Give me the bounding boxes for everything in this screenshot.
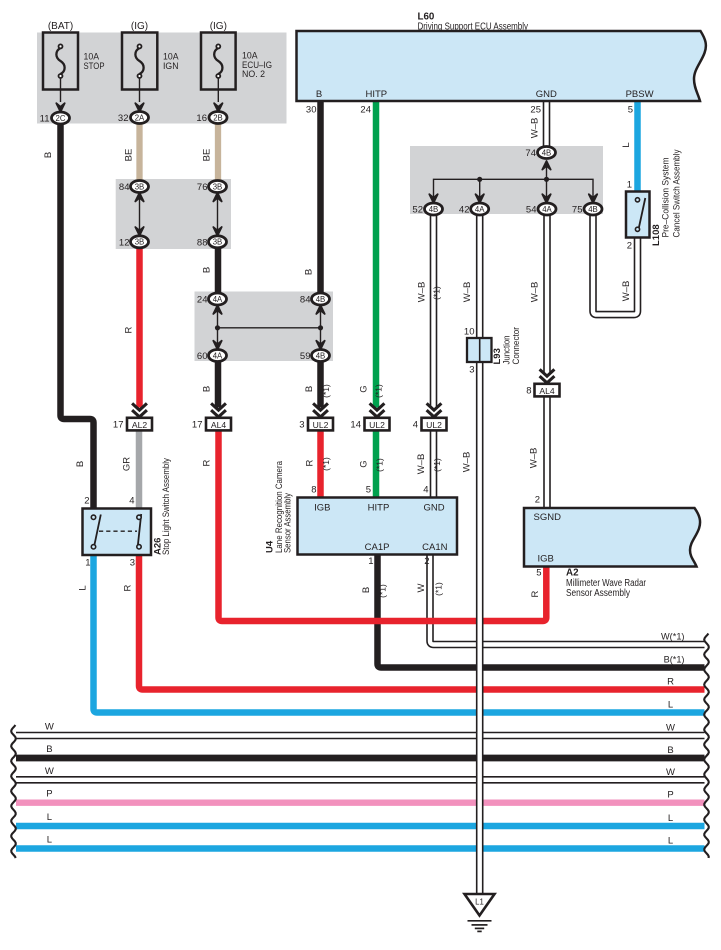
- svg-text:IGB: IGB: [314, 503, 330, 514]
- svg-text:60: 60: [197, 351, 208, 362]
- svg-text:B: B: [316, 89, 322, 100]
- svg-text:R: R: [202, 459, 213, 466]
- svg-text:AL2: AL2: [132, 420, 148, 430]
- svg-text:BE: BE: [124, 149, 135, 162]
- svg-text:W–B: W–B: [417, 282, 428, 303]
- svg-text:UL2: UL2: [369, 420, 385, 430]
- svg-text:5: 5: [628, 105, 633, 116]
- svg-text:UL2: UL2: [313, 420, 329, 430]
- svg-text:IGB: IGB: [538, 554, 554, 565]
- svg-text:84: 84: [300, 295, 311, 306]
- svg-text:10: 10: [464, 327, 475, 338]
- svg-text:4B: 4B: [429, 205, 439, 214]
- svg-text:3: 3: [469, 365, 474, 376]
- svg-text:1: 1: [368, 556, 373, 567]
- svg-text:L1: L1: [475, 898, 484, 907]
- svg-text:R: R: [667, 677, 674, 688]
- svg-text:CA1P: CA1P: [365, 542, 390, 553]
- svg-text:1: 1: [627, 180, 632, 191]
- svg-text:B: B: [304, 386, 315, 392]
- svg-text:B: B: [667, 745, 673, 756]
- svg-text:L: L: [668, 813, 673, 824]
- svg-text:(*1): (*1): [321, 457, 331, 471]
- svg-text:W–B: W–B: [621, 281, 632, 302]
- svg-text:NO. 2: NO. 2: [242, 69, 265, 80]
- svg-text:2: 2: [627, 241, 632, 252]
- svg-text:L: L: [668, 836, 673, 847]
- svg-text:4: 4: [423, 485, 428, 496]
- svg-text:SGND: SGND: [534, 512, 562, 523]
- svg-text:B: B: [46, 744, 52, 755]
- svg-text:(IG): (IG): [131, 21, 148, 32]
- svg-text:4A: 4A: [213, 351, 223, 360]
- svg-text:AL4: AL4: [211, 420, 227, 430]
- svg-text:32: 32: [118, 113, 129, 124]
- svg-text:4A: 4A: [542, 205, 552, 214]
- svg-text:W: W: [666, 723, 675, 734]
- svg-text:42: 42: [459, 205, 470, 216]
- svg-text:G: G: [359, 385, 370, 392]
- svg-text:GND: GND: [536, 89, 557, 100]
- svg-text:8: 8: [311, 485, 316, 496]
- svg-text:R: R: [305, 459, 316, 466]
- svg-text:CA1N: CA1N: [422, 542, 447, 553]
- svg-text:(*1): (*1): [378, 584, 388, 598]
- svg-text:L: L: [47, 835, 52, 846]
- svg-text:16: 16: [196, 113, 207, 124]
- svg-text:(*1): (*1): [321, 384, 331, 398]
- svg-text:P: P: [46, 789, 52, 800]
- svg-text:2B: 2B: [213, 113, 223, 122]
- svg-text:3B: 3B: [213, 238, 223, 247]
- svg-text:4B: 4B: [316, 351, 326, 360]
- svg-text:59: 59: [300, 351, 311, 362]
- svg-text:4B: 4B: [588, 205, 598, 214]
- svg-text:(IG): (IG): [210, 21, 227, 32]
- svg-text:L: L: [621, 142, 632, 147]
- svg-text:R: R: [123, 584, 134, 591]
- svg-text:STOP: STOP: [84, 61, 105, 72]
- svg-text:W: W: [45, 766, 54, 777]
- svg-text:54: 54: [526, 205, 537, 216]
- svg-text:W(*1): W(*1): [661, 632, 684, 642]
- svg-text:L: L: [78, 585, 89, 590]
- svg-text:4B: 4B: [542, 148, 552, 157]
- svg-text:30: 30: [306, 105, 317, 116]
- svg-text:GND: GND: [423, 503, 444, 514]
- svg-text:17: 17: [192, 420, 203, 431]
- svg-text:11: 11: [40, 114, 50, 125]
- svg-text:W–B: W–B: [530, 282, 541, 303]
- svg-text:1: 1: [85, 558, 90, 569]
- svg-text:Stop Light Switch Assembly: Stop Light Switch Assembly: [161, 458, 172, 555]
- svg-text:3: 3: [299, 420, 304, 431]
- svg-text:74: 74: [525, 148, 536, 159]
- svg-text:UL2: UL2: [426, 420, 442, 430]
- svg-text:5: 5: [536, 568, 541, 579]
- svg-text:Cancel Switch Assembly: Cancel Switch Assembly: [672, 149, 683, 237]
- svg-text:B: B: [361, 587, 372, 593]
- svg-text:BE: BE: [202, 149, 213, 162]
- svg-text:Sensor Assembly: Sensor Assembly: [566, 588, 630, 599]
- svg-text:Sensor Assembly: Sensor Assembly: [283, 493, 294, 553]
- svg-text:Driving Support ECU Assembly: Driving Support ECU Assembly: [418, 21, 529, 32]
- svg-text:3B: 3B: [135, 238, 145, 247]
- svg-text:5: 5: [366, 485, 371, 496]
- svg-text:P: P: [667, 790, 673, 801]
- svg-text:B: B: [202, 267, 213, 273]
- svg-text:B: B: [43, 152, 54, 158]
- svg-text:8: 8: [526, 386, 531, 397]
- svg-text:24: 24: [360, 105, 371, 116]
- svg-text:(*1): (*1): [434, 582, 444, 596]
- svg-text:Connector: Connector: [511, 327, 522, 365]
- svg-text:25: 25: [530, 105, 541, 116]
- svg-text:B: B: [75, 461, 86, 467]
- svg-text:3: 3: [130, 558, 135, 569]
- svg-text:W–B: W–B: [529, 448, 540, 469]
- svg-text:2: 2: [424, 556, 429, 567]
- svg-text:4B: 4B: [316, 295, 326, 304]
- svg-text:GR: GR: [122, 457, 133, 471]
- svg-text:L: L: [668, 700, 673, 711]
- svg-text:B: B: [304, 269, 315, 275]
- svg-text:12: 12: [119, 237, 130, 248]
- svg-text:2: 2: [535, 495, 540, 506]
- svg-text:IGN: IGN: [163, 61, 179, 72]
- svg-text:(*1): (*1): [432, 458, 442, 472]
- svg-text:(BAT): (BAT): [48, 21, 73, 32]
- svg-text:W: W: [416, 583, 427, 592]
- svg-text:4A: 4A: [475, 205, 485, 214]
- svg-text:52: 52: [412, 205, 423, 216]
- svg-text:2C: 2C: [56, 114, 66, 123]
- svg-text:14: 14: [350, 420, 361, 431]
- svg-text:B(*1): B(*1): [664, 655, 685, 665]
- svg-text:HITP: HITP: [368, 503, 390, 514]
- svg-text:2: 2: [84, 496, 89, 507]
- svg-text:W–B: W–B: [462, 452, 473, 473]
- svg-text:88: 88: [197, 237, 208, 248]
- svg-text:76: 76: [197, 182, 208, 193]
- svg-text:HITP: HITP: [365, 89, 387, 100]
- svg-text:84: 84: [119, 182, 130, 193]
- svg-text:4A: 4A: [213, 295, 223, 304]
- svg-text:3B: 3B: [135, 182, 145, 191]
- svg-text:75: 75: [572, 205, 583, 216]
- svg-text:R: R: [530, 590, 541, 597]
- svg-text:4: 4: [413, 420, 418, 431]
- svg-text:W: W: [666, 767, 675, 778]
- svg-text:17: 17: [113, 420, 124, 431]
- svg-text:AL4: AL4: [539, 386, 555, 396]
- svg-text:W–B: W–B: [462, 282, 473, 303]
- svg-text:3B: 3B: [213, 182, 223, 191]
- svg-text:W–B: W–B: [416, 454, 427, 475]
- svg-text:(*1): (*1): [375, 458, 385, 472]
- svg-text:G: G: [359, 460, 370, 467]
- svg-text:L: L: [47, 812, 52, 823]
- svg-text:W–B: W–B: [530, 118, 541, 139]
- svg-text:Pre–Collision System: Pre–Collision System: [661, 157, 672, 237]
- svg-text:Millimeter Wave Radar: Millimeter Wave Radar: [566, 578, 647, 589]
- svg-text:4: 4: [129, 496, 134, 507]
- svg-text:B: B: [202, 386, 213, 392]
- svg-text:W: W: [45, 722, 54, 733]
- svg-text:2A: 2A: [135, 113, 145, 122]
- svg-text:24: 24: [197, 295, 208, 306]
- svg-text:PBSW: PBSW: [626, 89, 654, 100]
- svg-text:(*1): (*1): [374, 384, 384, 398]
- svg-text:(*1): (*1): [432, 286, 442, 300]
- svg-text:R: R: [124, 326, 135, 333]
